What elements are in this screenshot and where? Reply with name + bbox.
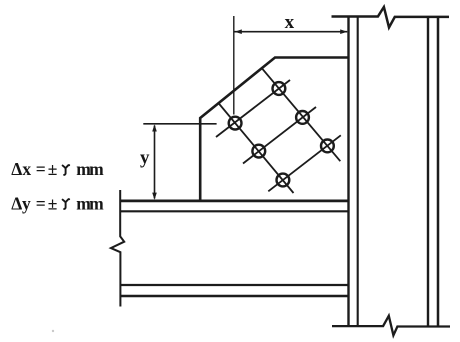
column left flange outer line	[347, 17, 349, 327]
svg-text:=: =	[36, 159, 46, 179]
bolt B1	[229, 117, 242, 130]
cross line through bolts B1 B2	[216, 80, 290, 137]
column bottom edge with break symbol	[332, 316, 450, 336]
bolt B3	[252, 145, 265, 158]
svg-text:=: =	[36, 193, 46, 213]
dimension x left arrowhead	[235, 29, 242, 34]
cross line through bolts B3 B4	[243, 107, 316, 164]
svg-text:±: ±	[48, 159, 58, 179]
dimension x right arrowhead	[340, 29, 347, 34]
svg-text:mm: mm	[76, 193, 104, 213]
svg-text:Δx: Δx	[11, 159, 31, 179]
bolt B2	[273, 82, 286, 95]
dimension x line	[235, 31, 348, 33]
tolerance text line 2: Delta y = +/- 2 mm	[11, 193, 104, 213]
column left flange inner line	[357, 17, 359, 327]
dimension y datum line	[143, 123, 216, 125]
svg-text:mm: mm	[76, 159, 104, 179]
gauge line through bolts B1 B3 B5	[218, 103, 294, 194]
beam bottom flange lower line	[121, 295, 349, 297]
svg-text:±: ±	[48, 193, 58, 213]
column top edge with break symbol	[332, 7, 450, 28]
dimension x extension line	[233, 16, 235, 115]
gauge line through bolts B2 B4 B6	[262, 68, 341, 161]
column right flange inner line	[427, 17, 429, 327]
gusset plate outline	[200, 58, 349, 201]
scan speck	[52, 330, 54, 332]
bolt B5	[277, 174, 290, 187]
svg-text:y: y	[140, 148, 150, 169]
svg-text:x: x	[285, 12, 295, 33]
tolerance text line 1: Delta x = +/- 2 mm	[11, 159, 104, 179]
bolt B6	[321, 140, 334, 153]
svg-text:Δy: Δy	[11, 193, 31, 213]
bolt B4	[296, 111, 309, 124]
beam left end line with break symbol	[111, 190, 124, 307]
dimension y arrow line	[154, 126, 156, 199]
dimension y top arrowhead	[152, 124, 157, 131]
beam top flange upper line	[121, 199, 349, 202]
beam bottom flange upper line	[121, 284, 349, 286]
dimension y bottom arrowhead	[152, 193, 157, 200]
beam top flange lower line	[121, 210, 349, 212]
cross line through bolts B5 B6	[268, 135, 341, 191]
column right flange outer line	[437, 17, 440, 327]
